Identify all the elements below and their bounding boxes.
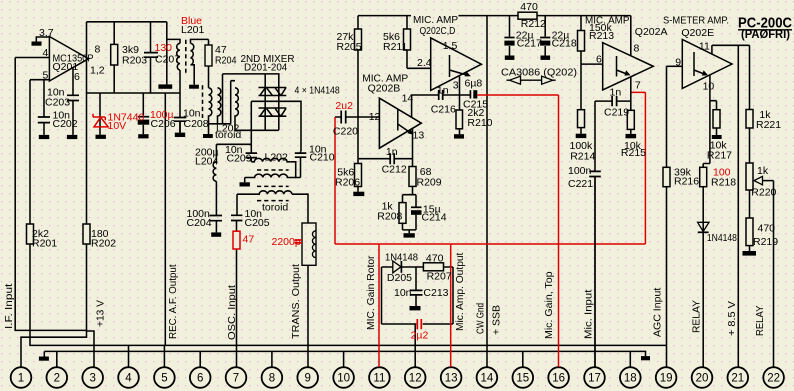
svg-text:RELAY: RELAY [754,306,766,336]
svg-text:R207: R207 [427,271,452,283]
svg-text:R206: R206 [335,177,360,189]
svg-text:6: 6 [596,54,602,66]
svg-text:RELAY: RELAY [691,300,703,333]
svg-text:16: 16 [552,373,565,385]
svg-text:+13 V: +13 V [95,300,107,327]
svg-text:17: 17 [588,373,601,385]
svg-text:TRANS. Output: TRANS. Output [290,264,302,339]
svg-text:7: 7 [233,373,239,385]
svg-text:4 × 1N4148: 4 × 1N4148 [295,85,340,97]
svg-text:C221: C221 [568,178,593,190]
svg-text:2200p: 2200p [272,236,301,248]
svg-text:6: 6 [74,71,80,83]
svg-text:R208: R208 [377,211,402,223]
svg-text:C212: C212 [382,164,407,176]
svg-text:1N4148: 1N4148 [707,232,737,244]
svg-text:10V: 10V [108,120,127,132]
svg-text:I.F. Input: I.F. Input [3,284,15,329]
svg-text:9: 9 [675,57,681,69]
svg-text:R212: R212 [521,18,546,30]
svg-text:L201: L201 [181,24,205,36]
svg-text:R218: R218 [711,177,736,189]
svg-text:+ 8.5 V: + 8.5 V [726,301,738,336]
svg-text:L202: L202 [265,152,289,164]
svg-text:R203: R203 [122,55,147,67]
svg-text:470: 470 [758,223,776,235]
svg-text:14: 14 [402,93,414,105]
svg-text:9: 9 [304,373,310,385]
svg-text:R215: R215 [621,147,646,159]
svg-text:12: 12 [369,111,381,123]
svg-text:C205: C205 [245,217,270,229]
svg-text:10: 10 [337,373,350,385]
svg-text:R201: R201 [32,238,57,250]
svg-text:C218: C218 [552,38,577,50]
svg-text:470: 470 [520,1,538,13]
svg-text:toroid: toroid [262,202,288,214]
svg-text:1n: 1n [437,85,449,97]
svg-text:15: 15 [516,373,529,385]
svg-text:R214: R214 [570,151,595,163]
svg-text:470: 470 [426,253,444,265]
svg-text:R205: R205 [337,41,362,53]
svg-text:21: 21 [731,373,744,385]
svg-text:R202: R202 [91,238,116,250]
svg-text:R210: R210 [467,117,492,129]
svg-text:C202: C202 [53,118,78,130]
svg-text:S-METER AMP.: S-METER AMP. [663,15,729,27]
svg-text:REC. A.F. Output: REC. A.F. Output [167,264,179,339]
svg-text:D201-204: D201-204 [244,62,287,74]
svg-text:R216: R216 [674,176,699,188]
svg-text:R219: R219 [753,236,778,248]
svg-text:13: 13 [413,130,425,142]
svg-text:2µ2: 2µ2 [411,330,429,342]
svg-text:R211: R211 [383,41,407,53]
svg-text:14: 14 [481,373,494,385]
svg-text:4: 4 [125,373,132,385]
svg-text:C209: C209 [227,153,252,165]
svg-text:toroid: toroid [215,129,241,141]
svg-text:C208: C208 [184,118,209,130]
svg-text:1n: 1n [386,146,398,158]
svg-text:22: 22 [767,373,780,385]
svg-text:R213: R213 [589,30,614,42]
svg-text:1: 1 [18,373,24,385]
svg-text:CW Gnd: CW Gnd [475,303,487,334]
svg-text:100n: 100n [568,165,592,177]
svg-text:8: 8 [95,44,101,56]
svg-text:C217: C217 [517,38,542,50]
svg-text:18: 18 [624,373,637,385]
svg-text:C220: C220 [333,126,358,138]
svg-text:Mic. Input: Mic. Input [583,290,595,339]
svg-text:2: 2 [54,373,60,385]
svg-text:1,2: 1,2 [90,65,105,77]
svg-text:11: 11 [699,41,710,53]
svg-text:2.4: 2.4 [417,57,432,69]
svg-text:C203: C203 [45,97,70,109]
svg-text:OSC. Input: OSC. Input [226,285,238,340]
svg-text:1.5: 1.5 [443,40,458,52]
svg-text:3,7: 3,7 [39,27,54,39]
svg-text:CA3086 (Q202): CA3086 (Q202) [501,67,577,79]
svg-text:C213: C213 [423,287,448,299]
svg-text:13: 13 [445,373,458,385]
svg-text:19: 19 [660,373,673,385]
svg-text:R209: R209 [417,177,442,189]
svg-text:C219: C219 [604,107,629,119]
svg-text:D205: D205 [387,272,412,284]
svg-text:47: 47 [243,234,255,246]
svg-text:R204: R204 [215,55,237,67]
svg-text:R221: R221 [756,119,781,131]
svg-text:C214: C214 [422,212,447,224]
svg-text:20: 20 [696,373,709,385]
svg-text:Mic. Gain, Top: Mic. Gain, Top [543,271,555,339]
svg-text:10: 10 [703,81,715,93]
svg-text:8: 8 [269,373,275,385]
svg-text:3: 3 [89,373,95,385]
svg-text:Q202B: Q202B [368,83,401,95]
svg-text:MIC. Gain Rotor: MIC. Gain Rotor [365,255,377,330]
svg-text:C210: C210 [310,152,335,164]
svg-text:1N4148: 1N4148 [385,252,418,264]
svg-text:C216: C216 [431,104,456,116]
svg-text:+ SSB: + SSB [490,305,502,335]
svg-text:130: 130 [155,42,173,54]
svg-text:AGC Input: AGC Input [652,288,664,337]
svg-text:11: 11 [373,373,385,385]
svg-text:1n: 1n [610,87,622,99]
svg-text:6µ8: 6µ8 [465,78,483,90]
svg-text:5: 5 [161,373,167,385]
svg-text:3: 3 [453,79,459,91]
svg-text:R220: R220 [751,187,776,199]
svg-text:5: 5 [43,70,49,82]
svg-text:2u2: 2u2 [335,100,353,112]
svg-text:Mic. Amp. Output: Mic. Amp. Output [454,253,466,331]
svg-text:8: 8 [634,43,640,55]
svg-text:10n: 10n [394,287,412,299]
svg-text:1k: 1k [757,165,769,177]
svg-text:4: 4 [43,47,49,59]
svg-text:Q202A: Q202A [635,26,668,38]
svg-text:100µ: 100µ [150,109,174,121]
svg-text:Q202E: Q202E [681,27,714,39]
svg-text:6: 6 [197,373,203,385]
svg-text:7: 7 [635,80,641,92]
svg-text:Q202C,D: Q202C,D [420,25,456,37]
svg-text:C204: C204 [187,217,212,229]
svg-text:R217: R217 [707,150,732,162]
svg-text:12: 12 [409,373,422,385]
svg-text:L204: L204 [195,156,219,168]
